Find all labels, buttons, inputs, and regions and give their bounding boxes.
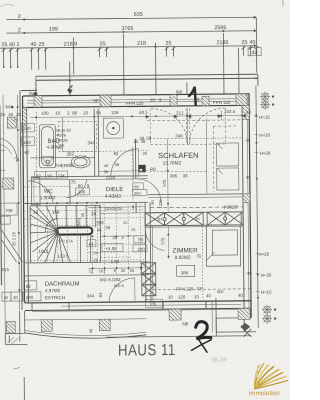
svg-text:25: 25 [38, 42, 44, 48]
svg-text:4.43M2: 4.43M2 [105, 194, 121, 200]
wall WC/DIELE top [31, 176, 148, 177]
wire extension x157 [154, 43, 156, 74]
ZIMMER window inner rect [212, 230, 237, 255]
svg-text:25: 25 [99, 41, 105, 47]
dashed dormer verticals [150, 108, 225, 145]
svg-text:2: 2 [16, 42, 19, 48]
svg-text:10: 10 [55, 111, 60, 116]
left dots [17, 106, 21, 291]
hatch left strip block [7, 117, 16, 128]
svg-text:ZIMMER: ZIMMER [172, 247, 198, 254]
svg-text:67: 67 [25, 150, 30, 155]
ZIMMER ridge dotted vertical [201, 226, 204, 300]
bottom-right x mark [243, 329, 251, 337]
left bottom tick [14, 368, 20, 370]
right exterior wall [242, 105, 244, 317]
svg-text:H=20: H=20 [261, 273, 272, 278]
svg-text:161: 161 [99, 268, 106, 273]
flue black square [138, 165, 146, 173]
svg-text:WC: WC [44, 189, 53, 195]
svg-text:709: 709 [5, 208, 13, 213]
svg-text:38: 38 [139, 136, 144, 141]
boxed 240 b [21, 137, 34, 146]
svg-text:200: 200 [78, 189, 86, 194]
svg-text:344: 344 [87, 140, 95, 145]
svg-text:WD 6./282: WD 6./282 [100, 277, 121, 282]
bottom window end posts [162, 302, 164, 309]
door arc schlafen left [151, 108, 187, 144]
svg-text:H=15: H=15 [259, 115, 270, 120]
svg-text:1124: 1124 [106, 175, 116, 180]
wall vertical x215 bottom [215, 298, 217, 336]
wall stair top [24, 202, 148, 203]
svg-text:40: 40 [247, 271, 252, 276]
svg-text:50.5: 50.5 [139, 110, 148, 115]
corridor wall upper [134, 139, 136, 179]
svg-text:24: 24 [93, 251, 97, 255]
svg-text:1325: 1325 [158, 199, 163, 209]
svg-text:25: 25 [197, 253, 202, 258]
truss wall band cells [141, 212, 244, 296]
hatched pier top wall 1 [34, 96, 42, 108]
arrowheads on y118 [146, 114, 246, 119]
svg-text:M: M [4, 295, 8, 300]
wall BAD right vertical [93, 109, 96, 176]
svg-text:10: 10 [83, 110, 88, 115]
wire extension x125 [122, 34, 124, 74]
wardrobe SCHLAFEN lower [217, 168, 239, 190]
sink circle with dot [107, 122, 120, 135]
svg-text:40: 40 [238, 293, 243, 298]
corridor dotted verticals [91, 204, 94, 275]
svg-text:2: 2 [18, 27, 21, 33]
sink counter box [103, 118, 123, 138]
svg-text:H=20: H=20 [259, 252, 270, 257]
svg-text:9.82M2: 9.82M2 [175, 255, 191, 261]
big digit 1 [189, 87, 196, 105]
wall BAD inner vertical [61, 118, 63, 152]
svg-text:46: 46 [97, 228, 101, 232]
stair curve [45, 219, 58, 232]
stair handrail bar [56, 227, 92, 234]
svg-text:133.5: 133.5 [58, 254, 70, 259]
svg-text:10: 10 [168, 295, 173, 300]
svg-text:40: 40 [8, 112, 13, 117]
svg-text:82: 82 [26, 284, 31, 289]
svg-text:20: 20 [150, 98, 155, 103]
roof outline right vertical [257, 74, 259, 85]
svg-text:2595: 2595 [214, 25, 226, 31]
hatch right wall mid piece [243, 194, 250, 203]
wire extension x225 lower [223, 73, 225, 94]
svg-text:40: 40 [246, 110, 251, 115]
row end diamonds [254, 15, 257, 47]
svg-text:40: 40 [13, 295, 18, 300]
FIRST ridge dashed line [150, 206, 243, 209]
left scrap arrow diagonals [0, 228, 22, 262]
svg-text:25: 25 [133, 139, 138, 144]
svg-text:40: 40 [246, 175, 251, 180]
right dimension line vertical [256, 86, 258, 328]
bottom band mullion [31, 303, 33, 311]
svg-text:705: 705 [149, 302, 157, 307]
svg-text:98: 98 [72, 110, 77, 115]
hatch bottom wall left block [99, 319, 110, 331]
svg-text:15.76M2: 15.76M2 [163, 160, 182, 166]
wall ZIMMER left vertical [144, 202, 147, 301]
svg-text:126: 126 [111, 110, 119, 115]
left boxed row M 40 240 [2, 292, 11, 301]
svg-text:RR: RR [150, 167, 156, 172]
boxed 200 upper [132, 189, 147, 196]
boxed row under tub [35, 171, 68, 178]
box 82 [24, 281, 37, 290]
svg-text:40: 40 [206, 293, 211, 298]
0w circle [34, 92, 38, 96]
wire extension x258 [256, 48, 258, 73]
door arc schlafen right [189, 108, 225, 144]
door arc corridor [137, 179, 161, 203]
roof outline left vertical [20, 90, 22, 309]
wire extension x125 lower [123, 74, 125, 95]
dim horizontal mid [63, 150, 150, 153]
svg-text:120: 120 [178, 294, 186, 299]
dim row y205 [88, 206, 145, 209]
left hatch block mid [3, 178, 14, 189]
door arc BAD [111, 149, 139, 177]
svg-text:40: 40 [9, 42, 15, 48]
dimension ticks row 3 [2, 46, 259, 70]
svg-text:015: 015 [2, 267, 10, 272]
svg-text:240: 240 [26, 295, 34, 300]
svg-text:WD: WD [217, 289, 224, 294]
door arc ZIMMER [145, 230, 164, 251]
svg-text:20: 20 [94, 258, 98, 262]
svg-text:85: 85 [138, 237, 143, 242]
wire extension x75 [72, 37, 74, 74]
left dim vertical [17, 95, 19, 310]
corridor dotted horizontals [24, 196, 148, 197]
svg-text:SP: SP [93, 98, 99, 103]
wall SCHLAFEN bottom [148, 193, 243, 196]
wall WC right [69, 180, 71, 205]
svg-text:1.90M2: 1.90M2 [40, 195, 56, 200]
svg-text:1015: 1015 [38, 249, 48, 254]
bathtub [39, 125, 55, 168]
svg-text:DACHRAUM: DACHRAUM [45, 281, 80, 287]
ZIMMER left furniture line [151, 227, 154, 302]
ZIMMER dormer box [206, 225, 240, 266]
svg-text:386: 386 [170, 173, 178, 178]
hatched pier top wall 5 [236, 94, 247, 106]
wire extension x157 lower [155, 74, 157, 95]
svg-text:25: 25 [241, 40, 247, 46]
svg-text:3765: 3765 [121, 26, 133, 32]
svg-text:25: 25 [165, 41, 171, 47]
right margin tick marks [254, 117, 260, 292]
svg-text:FPH 120: FPH 120 [126, 101, 144, 106]
dimension line row 1 [6, 17, 256, 19]
svg-text:2: 2 [18, 14, 21, 20]
left wall foot [5, 311, 27, 345]
hatch left wall top [23, 107, 27, 125]
right edge faint mark [281, 0, 284, 6]
svg-text:240: 240 [23, 140, 31, 145]
svg-text:FPH 120: FPH 120 [176, 286, 194, 291]
svg-text:STI 17A: STI 17A [58, 238, 73, 243]
svg-text:40: 40 [252, 50, 258, 56]
bathtub slope + drain [42, 157, 54, 166]
svg-text:40: 40 [88, 328, 93, 333]
washbasin [71, 156, 90, 168]
svg-text:H=28: H=28 [260, 151, 271, 156]
wall DACHRAUM top [25, 262, 149, 263]
svg-text:199: 199 [49, 27, 58, 33]
svg-text:immolution: immolution [249, 390, 280, 397]
stair enclosure [30, 205, 101, 263]
svg-text:SCHLAFEN: SCHLAFEN [158, 151, 199, 160]
boxed 40 right [248, 48, 261, 56]
svg-text:200: 200 [134, 191, 141, 196]
door arc DACHRAUM bottom [109, 278, 135, 302]
svg-text:399: 399 [96, 220, 104, 225]
svg-text:SP: SP [197, 286, 203, 291]
crosshatch band border [145, 212, 241, 226]
svg-text:36,34: 36,34 [211, 357, 227, 364]
svg-text:212: 212 [176, 110, 184, 115]
svg-text:575: 575 [162, 179, 167, 187]
stair tread extension dotted verticals [36, 203, 39, 265]
svg-text:20: 20 [112, 235, 117, 240]
starburst top pair [260, 92, 274, 110]
bottom outline line [106, 336, 251, 337]
left scrap box2 [0, 216, 10, 224]
svg-text:THERME: THERME [55, 163, 74, 168]
dim verticals in plan [35, 112, 38, 177]
wardrobe SCHLAFEN upper [216, 143, 238, 166]
hatched pier top wall 4 [202, 96, 209, 106]
svg-text:40: 40 [249, 40, 255, 46]
boxed 240 a [21, 123, 34, 132]
hatch bottom wall right block [238, 308, 250, 319]
window glazing lines in top wall [27, 99, 249, 101]
hatch right wall top piece [242, 105, 249, 119]
svg-text:26 2 25: 26 2 25 [11, 231, 16, 246]
svg-text:ESTRICH: ESTRICH [45, 295, 65, 300]
svg-text:2185: 2185 [216, 40, 228, 46]
hatch left bottom block [6, 322, 15, 334]
WC door leaf rect [31, 178, 40, 205]
big digit 2 handwritten [191, 322, 211, 353]
svg-text:25: 25 [33, 210, 38, 215]
eaves curve bottom [25, 332, 146, 339]
svg-text:CM: CM [58, 173, 64, 178]
dim row under top wall [30, 115, 242, 117]
svg-text:+5.92: +5.92 [105, 246, 117, 251]
svg-text:8|8: 8|8 [176, 89, 183, 94]
dots on dim lines [35, 114, 259, 301]
wire extension x71 with marker [69, 62, 71, 96]
svg-text:55: 55 [96, 110, 101, 115]
svg-text:HAUS 11: HAUS 11 [118, 342, 176, 360]
wire extension x240 [238, 48, 240, 73]
svg-text:50: 50 [146, 136, 151, 141]
svg-text:63: 63 [98, 292, 103, 297]
boxed 85 upper [133, 183, 144, 190]
door arc hall [28, 181, 53, 204]
wire extension x37 short [35, 81, 37, 96]
ZIMMER dashed line [153, 288, 251, 291]
wall BAD bottom [31, 156, 95, 159]
wardrobe dashed outline [213, 126, 239, 192]
svg-text:36: 36 [183, 173, 188, 178]
schlafen dim line [149, 137, 242, 140]
svg-text:209: 209 [52, 210, 60, 215]
hatch left eave block [41, 320, 52, 332]
svg-text:24: 24 [131, 228, 135, 232]
svg-text:25: 25 [1, 42, 7, 48]
left sheet vertical line [3, 95, 5, 340]
hatch bottom wall mid block [169, 309, 181, 320]
boxed 85 [134, 236, 146, 243]
svg-text:DIELE: DIELE [106, 187, 123, 193]
svg-text:WD 6: WD 6 [114, 283, 125, 288]
svg-text:62: 62 [114, 151, 119, 156]
svg-text:200: 200 [137, 247, 145, 252]
sheet edge dark [0, 105, 2, 285]
svg-text:8|8: 8|8 [182, 321, 189, 326]
door arc WC [66, 179, 87, 197]
left scrap curve [0, 138, 17, 162]
left edge ticks [0, 120, 19, 186]
2d dot [11, 106, 14, 109]
wire extension x188 lower [186, 82, 188, 94]
left scrap rect [0, 203, 17, 215]
svg-text:1.90: 1.90 [111, 259, 120, 264]
SCHLAFEN wardrobe divider [205, 118, 208, 194]
stair treads right part verticals [79, 235, 81, 262]
level box +5.92 [102, 244, 123, 252]
stair treads radiating [30, 206, 71, 263]
roof outline top double line [36, 74, 258, 76]
dimension line row 2 [6, 31, 256, 33]
shower dashed box [58, 121, 96, 151]
svg-text:75: 75 [71, 179, 76, 184]
boxed 63 [87, 240, 96, 247]
svg-text:100: 100 [41, 111, 49, 116]
svg-text:B12B: B12B [58, 139, 68, 143]
svg-text:180/91: 180/91 [76, 216, 81, 229]
logo immolution [249, 363, 288, 397]
svg-text:240: 240 [23, 126, 31, 131]
ZIMMER table 386 box [177, 265, 195, 276]
svg-text:120/20/24: 120/20/24 [104, 206, 123, 211]
dim row y295 bottom [161, 300, 211, 302]
svg-text:2d: 2d [5, 104, 10, 109]
svg-text:103.5: 103.5 [224, 109, 236, 114]
svg-text:4.97M2: 4.97M2 [45, 288, 61, 293]
svg-text:575: 575 [160, 237, 165, 245]
wire extension x225 [222, 33, 224, 73]
svg-text:348: 348 [175, 133, 183, 138]
svg-text:FPH 120: FPH 120 [213, 100, 231, 105]
faint top-left scan curve [0, 4, 14, 8]
svg-text:10: 10 [194, 294, 199, 299]
dimension line row 3 [0, 46, 256, 48]
svg-text:BL26,1B: BL26,1B [56, 129, 71, 133]
starburst bottom pair [262, 305, 276, 324]
svg-text:0w: 0w [29, 91, 35, 96]
svg-text:26: 26 [91, 211, 96, 216]
svg-text:25: 25 [123, 221, 127, 225]
svg-text:344: 344 [87, 293, 95, 298]
svg-text:H=15: H=15 [261, 290, 272, 295]
svg-text:36: 36 [105, 225, 110, 230]
svg-text:282: 282 [67, 151, 75, 156]
left exterior wall [23, 96, 25, 303]
svg-text:40: 40 [30, 42, 36, 48]
svg-text:45/26: 45/26 [56, 134, 66, 138]
dark diamond bottom right [240, 323, 250, 331]
bottom right wall steps [216, 318, 256, 332]
hatched pier top wall 2 [100, 95, 111, 107]
svg-text:218.9: 218.9 [64, 41, 78, 47]
svg-text:25: 25 [0, 112, 5, 117]
node dots on dim lines [23, 16, 224, 49]
SCHLAFEN dashed dormer top [147, 119, 242, 122]
scrap vertical bottom [23, 377, 25, 400]
hatched pier top wall 3 [170, 94, 177, 106]
svg-text:FIRST: FIRST [224, 205, 238, 211]
wire extension x240 lower [238, 73, 240, 94]
boxed 200 [133, 245, 147, 252]
top exterior wall band [23, 94, 249, 96]
bottom exterior wall band [25, 301, 251, 303]
svg-text:H=20: H=20 [259, 133, 270, 138]
svg-text:22: 22 [16, 112, 21, 117]
svg-text:40: 40 [245, 138, 250, 143]
svg-text:386: 386 [181, 270, 189, 275]
svg-text:218: 218 [137, 41, 146, 47]
svg-text:18: 18 [59, 144, 63, 148]
ZIMMER small corner mark [207, 252, 215, 260]
svg-text:835: 835 [134, 12, 143, 18]
